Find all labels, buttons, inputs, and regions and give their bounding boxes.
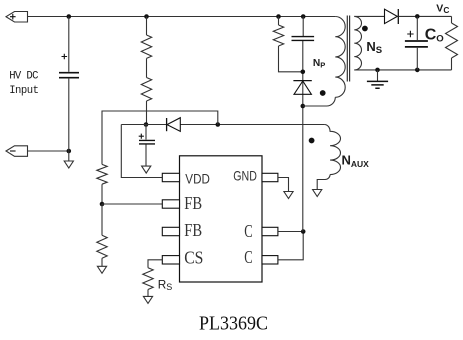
wire diode cathode to Vc xyxy=(398,15,451,17)
svg-text:HV DC: HV DC xyxy=(9,71,38,83)
wire C1 bottom lead xyxy=(68,79,70,151)
op-amp U1 PL3369C controller body xyxy=(180,156,263,282)
connector J1 plus input terminal xyxy=(6,12,28,23)
resistor R3 FB divider upper xyxy=(97,164,107,184)
wire Rs bottom lead xyxy=(147,290,149,297)
wire Naux bottom lead to ground xyxy=(317,175,330,190)
svg-text:C: C xyxy=(244,221,252,241)
ground Rs (open arrow) xyxy=(143,296,152,303)
node VDD xyxy=(144,122,149,127)
resistor R1 startup upper xyxy=(141,35,151,58)
transformer T1 aux winding Naux xyxy=(324,125,340,175)
earth ground secondary (3 bars) xyxy=(367,81,388,88)
wire R1 top lead xyxy=(146,17,148,36)
minus sign in J2 xyxy=(10,150,16,152)
wire FB node to FB pin xyxy=(102,203,162,205)
svg-text:VDD: VDD xyxy=(185,171,210,187)
wire aux rail through diode D2 to Naux xyxy=(121,124,324,126)
connector J2 minus input terminal xyxy=(6,146,28,157)
ground VDD cap (open arrow) xyxy=(142,166,151,173)
plus polarity of C1 xyxy=(62,54,68,60)
node Co bottom xyxy=(415,68,420,73)
resistor Rs current sense xyxy=(143,268,153,290)
pin CS (left) xyxy=(162,256,179,264)
capacitor C3 snubber xyxy=(292,37,315,41)
ground input (open arrow) xyxy=(64,161,73,168)
svg-text:NS: NS xyxy=(366,39,382,56)
diode D2 aux rectifier (cathode left) xyxy=(166,118,168,131)
node top rail at snubber R xyxy=(276,14,281,19)
wire C1 top lead xyxy=(68,17,70,72)
svg-text:FB: FB xyxy=(184,220,202,240)
resistor RL load xyxy=(446,23,458,58)
diode D1 snubber clamp (cathode up) xyxy=(293,80,311,82)
wire CS pin to Rs xyxy=(148,260,162,268)
svg-text:NAUX: NAUX xyxy=(342,153,370,169)
node bottom rail at input cap C1 xyxy=(67,149,72,154)
pin VDD (left) xyxy=(162,173,179,181)
wire C2 pin to drain line xyxy=(278,232,303,260)
pin FB2 (left) xyxy=(162,227,179,235)
wire GND pin to ground xyxy=(278,178,289,192)
wire secondary bottom rail xyxy=(354,69,451,71)
svg-text:NP: NP xyxy=(313,58,325,70)
node FB xyxy=(100,202,105,207)
wire load resistor top lead xyxy=(451,16,453,23)
wire snubber C top lead xyxy=(302,17,304,37)
wire VDD cap top lead xyxy=(145,125,147,140)
wire Co bottom lead xyxy=(416,48,418,70)
svg-text:CO: CO xyxy=(425,27,445,45)
ground FB divider (open arrow) xyxy=(97,266,106,273)
wire to earth ground xyxy=(377,70,379,81)
node aux sense tap xyxy=(216,122,221,127)
node top rail at input cap C1 xyxy=(67,14,72,19)
wire C1 pin to drain line xyxy=(278,231,303,233)
plus sign in J1 xyxy=(10,14,16,20)
transformer T1 primary winding Np xyxy=(335,17,345,98)
node secondary ground tap xyxy=(375,68,380,73)
ground GND pin (open arrow) xyxy=(284,192,293,199)
wire to input ground xyxy=(68,151,70,161)
svg-text:PL3369C: PL3369C xyxy=(199,313,268,335)
pin FB1 (left) xyxy=(162,200,179,208)
wire aux tap up-left-down to divider xyxy=(102,111,218,164)
capacitor Co output xyxy=(405,41,428,47)
pin C2 (right) xyxy=(262,256,278,264)
node snubber RC join xyxy=(301,70,306,75)
plus polarity of Co xyxy=(407,31,413,37)
wire R3 to FB node xyxy=(101,184,103,204)
wire snubber R bottom to join xyxy=(279,46,303,72)
wire Np bottom lead to drain node xyxy=(303,97,336,106)
node collector pins xyxy=(301,229,306,234)
node top rail at snubber C xyxy=(301,14,306,19)
wire Co top lead xyxy=(416,16,418,40)
transformer T1 secondary winding Ns xyxy=(354,16,361,70)
wire VDD pin to VDD node (L-shape) xyxy=(121,125,162,178)
svg-text:CS: CS xyxy=(184,247,203,267)
diode D3 output rectifier (cathode right) xyxy=(385,9,398,23)
wire load resistor bottom lead xyxy=(451,58,453,70)
resistor R5 snubber xyxy=(273,25,283,46)
svg-text:VC: VC xyxy=(436,3,449,15)
node drain / primary bottom xyxy=(301,104,306,109)
wire R4 bottom lead xyxy=(101,258,103,266)
wire bottom input rail xyxy=(28,150,69,152)
phasing dot Np xyxy=(320,90,326,96)
capacitor C1 input bulk cap xyxy=(59,73,79,78)
wire VDD cap bottom lead xyxy=(145,145,147,167)
pin C1 (right) xyxy=(262,227,278,235)
svg-text:GND: GND xyxy=(233,168,257,184)
wire FB node to R4 xyxy=(101,204,103,235)
node Vc at Co xyxy=(415,14,420,19)
svg-text:FB: FB xyxy=(184,193,202,213)
resistor R4 FB divider lower xyxy=(97,235,107,258)
svg-text:RS: RS xyxy=(158,278,173,293)
transformer T1 core xyxy=(347,16,349,82)
capacitor C2 VDD supply xyxy=(139,140,155,144)
plus polarity of VDD cap xyxy=(139,134,144,139)
svg-text:Input: Input xyxy=(9,85,39,97)
ground Naux (open arrow) xyxy=(313,190,322,197)
wire Ns top to output diode xyxy=(354,15,384,17)
phasing dot Naux xyxy=(309,138,315,144)
phasing dot Ns xyxy=(362,26,368,32)
wire snubber R top lead xyxy=(278,17,280,26)
svg-text:C: C xyxy=(244,247,252,267)
wire drain line down through D1 to C pins node xyxy=(302,41,304,232)
resistor R2 startup lower xyxy=(141,78,151,102)
wire R2 bottom lead to VDD node xyxy=(146,101,148,125)
node top rail at startup resistors xyxy=(144,14,149,19)
wire top rail from J1 to transformer primary xyxy=(28,16,336,18)
pin GND (right) xyxy=(262,173,278,181)
wire between R1 and R2 xyxy=(146,58,148,77)
